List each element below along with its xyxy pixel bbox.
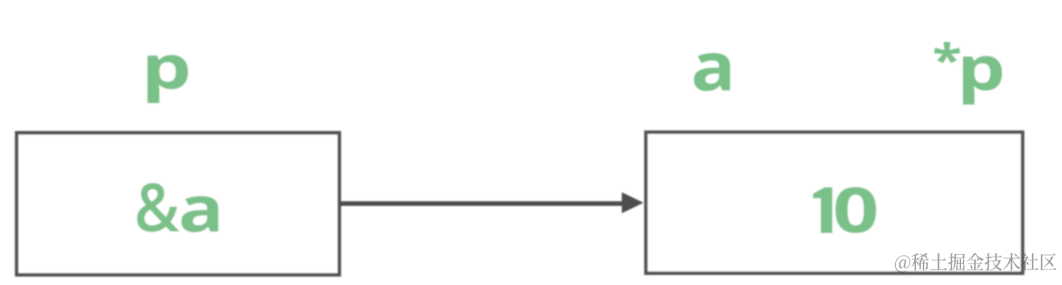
- value &amp;a letter a in left box: [181, 196, 218, 232]
- value &amp;a ampersand in left box: [137, 183, 180, 232]
- value 10 digit 0 in right box: [835, 187, 876, 233]
- arrowhead: [622, 192, 644, 213]
- label a over right box: [694, 53, 730, 91]
- value 10 digit 1 in right box: [813, 187, 832, 233]
- watermark @稀土掘金技术社区: [895, 253, 1057, 272]
- left box (pointer variable p): [17, 133, 340, 275]
- label *p asterisk: [934, 42, 960, 63]
- arrow wire from p box to a box: [340, 201, 625, 206]
- label p over left box: [148, 55, 188, 103]
- label *p letter p: [963, 56, 1002, 104]
- right box (variable a): [646, 132, 1023, 273]
